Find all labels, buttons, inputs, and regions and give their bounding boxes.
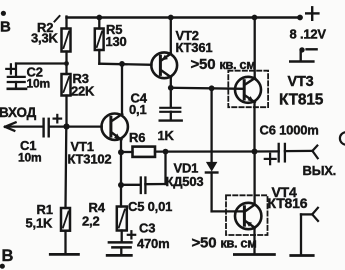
svg-text:R6: R6 — [129, 130, 145, 145]
node R6 left dot — [118, 149, 124, 155]
output connector fork — [312, 146, 317, 159]
resistor R5 — [95, 29, 104, 51]
wire VT3 collector lead — [254, 18, 256, 79]
wire VD1 anode lead — [210, 88, 212, 162]
wire VT2 collector to VT3 base — [171, 88, 243, 89]
wire output node to C6 — [255, 150, 279, 152]
minus terminal node dot — [299, 47, 304, 52]
node output junction dot — [252, 149, 258, 155]
wire VT1 emitter lead — [120, 140, 122, 153]
capacitor C6 — [279, 144, 285, 162]
minus terminal bar — [290, 60, 313, 63]
svg-text:КД503: КД503 — [166, 174, 204, 189]
ground under C2 — [8, 88, 26, 91]
svg-text:3,3K: 3,3K — [31, 31, 58, 46]
dashed heatsink box VT3 — [228, 71, 268, 108]
ground under VT4 — [234, 253, 274, 256]
wire C3 to ground — [120, 248, 122, 256]
svg-text:КТ361: КТ361 — [176, 40, 213, 55]
ground under C3 — [107, 254, 131, 257]
svg-text:470m: 470m — [137, 236, 169, 251]
node VT2 emitter rail dot — [168, 15, 174, 21]
svg-text:5,1K: 5,1K — [26, 216, 53, 231]
wire VT2 emitter lead — [170, 18, 172, 54]
svg-text:C3: C3 — [139, 221, 155, 236]
transistor VT4 — [235, 203, 261, 229]
tick mark after R2 — [55, 16, 60, 22]
node B terminal top-left dot — [1, 11, 6, 16]
ground under R1 — [50, 253, 78, 256]
capacitor C1 — [44, 119, 49, 137]
resistor R3 — [62, 74, 71, 96]
svg-text:10m: 10m — [27, 77, 50, 91]
wire R1 to ground — [64, 231, 66, 254]
wire input to C1 — [6, 125, 43, 127]
wire junction to VT1 collector — [121, 64, 123, 115]
wire VT2 collector lead — [170, 77, 172, 88]
wire C1 to VT1 base — [49, 125, 102, 127]
speaker connector fork — [312, 208, 318, 221]
node VD1 anode dot — [209, 85, 215, 91]
resistor R4 — [117, 207, 127, 231]
wire C4 bottom stem — [170, 112, 172, 120]
wire VT1 emitter chain down — [120, 152, 122, 206]
+ terminal symbol — [306, 7, 318, 19]
C4 bottom bar — [160, 119, 182, 121]
capacitor C4 — [160, 108, 180, 112]
wire R5 bottom lead — [98, 50, 100, 64]
node VT3 collector rail dot — [252, 15, 258, 21]
svg-text:>50 кв. см: >50 кв. см — [192, 235, 257, 252]
node C2 tap dot — [64, 61, 69, 66]
input arrow — [5, 122, 16, 130]
transistor VT1 — [102, 114, 128, 141]
node + rail end dot — [297, 15, 303, 21]
svg-text:22K: 22K — [71, 84, 95, 99]
svg-text:130: 130 — [106, 34, 127, 49]
wire VT4 collector lead — [253, 152, 255, 205]
svg-text:C6 1000m: C6 1000m — [260, 123, 319, 138]
svg-text:1K: 1K — [158, 128, 175, 143]
svg-text:C5 0,01: C5 0,01 — [128, 199, 172, 214]
transistor VT3 — [235, 77, 261, 103]
wire C2 to ground — [15, 82, 17, 88]
wire R3 to input node — [65, 96, 67, 127]
wire R6 right to output node — [155, 150, 255, 152]
wire R5 to VT2 base — [99, 64, 151, 65]
speaker terminal ground — [291, 254, 313, 257]
svg-text:КТ815: КТ815 — [279, 92, 324, 109]
capacitor C2 plus sign — [6, 64, 15, 73]
resistor R6 — [121, 147, 155, 157]
svg-text:ВХОД: ВХОД — [0, 105, 37, 120]
wire R5 top lead — [98, 18, 100, 29]
capacitor C6 plus sign — [265, 154, 276, 164]
svg-text:VT3: VT3 — [288, 74, 314, 90]
svg-text:В: В — [0, 19, 11, 36]
wire VT3 emitter to output node — [253, 102, 255, 152]
dashed heatsink box VT4 — [226, 195, 268, 235]
capacitor C2 — [8, 77, 25, 82]
node B terminal bottom-left dot — [0, 264, 5, 269]
wire R2 top lead — [65, 17, 67, 29]
svg-text:8 .12V: 8 .12V — [290, 27, 327, 42]
node C5 tap dot — [163, 149, 169, 155]
wire C6 to output connector — [285, 150, 313, 153]
wire input node to R1 — [64, 127, 67, 209]
wire C2 branch — [16, 64, 67, 77]
svg-text:0,1: 0,1 — [129, 102, 146, 117]
svg-text:КТ816: КТ816 — [268, 195, 308, 211]
wire C5 left lead — [121, 184, 140, 186]
svg-text:ВЫХ.: ВЫХ. — [303, 163, 337, 178]
resistor R1 — [61, 208, 70, 231]
resistor R2 — [62, 29, 71, 52]
wire VT4 emitter to ground — [253, 228, 255, 253]
wire speaker terminal — [301, 214, 312, 255]
node input junction dot — [63, 123, 69, 129]
svg-text:КТ3102: КТ3102 — [68, 151, 112, 166]
capacitor C3 — [109, 242, 131, 247]
transistor VT2 — [151, 52, 177, 78]
svg-text:2,2: 2,2 — [82, 214, 99, 229]
node VT1 collector junction dot — [119, 61, 125, 67]
svg-text:10m: 10m — [18, 151, 41, 165]
wire C5 right lead up — [145, 152, 165, 185]
node R5 top dot — [96, 15, 102, 21]
minus sign — [307, 48, 317, 50]
wire R2 to R3 — [65, 52, 67, 75]
capacitor C1 plus sign — [54, 115, 62, 123]
node C5 left dot — [118, 182, 124, 188]
wire VD1 cathode to VT4 base — [212, 173, 243, 212]
capacitor C3 plus sign — [128, 231, 135, 238]
wire C4 top lead — [170, 88, 172, 107]
wire R4 to C3 — [121, 231, 123, 243]
node VT2 collector dot — [168, 85, 174, 91]
svg-text:В: В — [2, 247, 14, 265]
partial circle artifact right edge — [340, 132, 345, 145]
wire top supply rail — [67, 16, 301, 19]
capacitor C5 — [141, 178, 146, 194]
wire minus terminal stem — [300, 50, 302, 61]
diode VD1 — [206, 162, 218, 173]
